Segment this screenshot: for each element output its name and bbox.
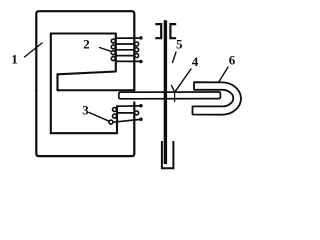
coil 2 wires [116,38,140,61]
outer case box 1 lower part [36,90,134,156]
core slot left closure [56,74,58,90]
core left yoke edge [50,34,52,134]
tick on rod 4 [174,92,176,102]
coil 2 right loops [135,42,139,58]
leader line 6 [219,67,229,83]
svg-text:1: 1 [11,52,18,67]
svg-text:6: 6 [229,53,236,68]
core bottom edge [51,132,117,134]
coil 2 terminal dots [139,36,143,40]
leader line 2 [100,48,112,52]
leader line 4 [175,69,191,92]
coil 3 terminal dots [139,104,143,108]
core top edge [51,32,116,34]
cup at rod bottom [162,141,174,168]
coil 3 left loops [109,108,117,125]
svg-text:2: 2 [83,37,90,52]
svg-text:3: 3 [82,103,89,118]
horseshoe piece 6 [193,82,241,115]
vertical rod 5 [164,20,167,164]
svg-text:4: 4 [192,54,199,69]
leader line 3 [89,113,109,122]
leader 4 arrow stroke [172,86,175,93]
core top limb right edge [115,34,117,72]
clamp bracket left [155,24,161,38]
core slot top edge [58,72,116,75]
outer case box 1 [36,11,134,90]
coil 3 wires [113,106,140,122]
coil 3 right loop [135,111,139,115]
core bottom limb right edge [116,106,118,133]
svg-text:5: 5 [176,36,183,51]
coil 2 left loops [111,39,115,61]
leader line 1 [25,43,43,57]
leader line 5 [173,52,177,63]
rod 4 [119,92,221,99]
core middle limb bottom edge [58,89,135,91]
clamp bracket right [170,24,176,38]
